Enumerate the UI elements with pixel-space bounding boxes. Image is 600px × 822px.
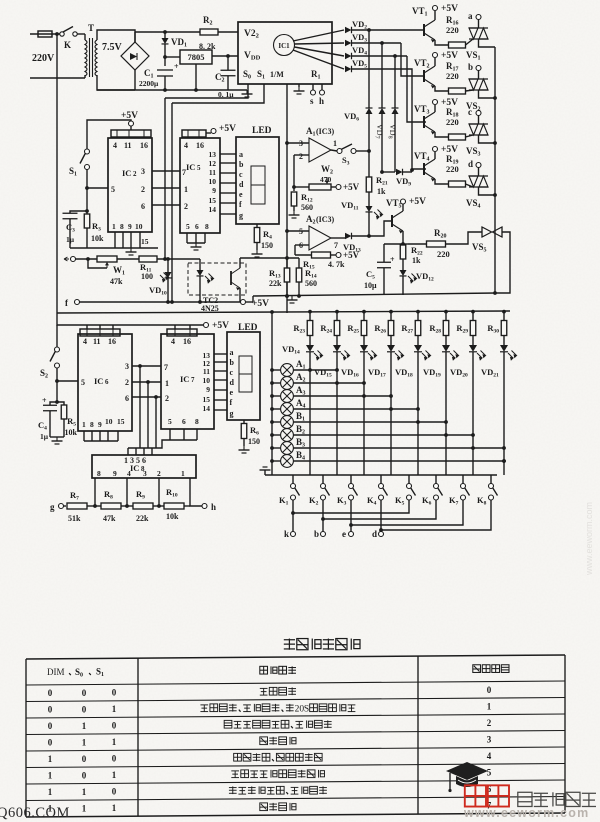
svg-text:220: 220 [446, 117, 459, 127]
node row A4 junction [416, 407, 420, 411]
wire IC2 pin3 to IC5 pin7 [152, 170, 180, 172]
pin header bar IC6 [80, 329, 120, 336]
terminal a [476, 15, 481, 20]
svg-text:9: 9 [113, 469, 117, 478]
terminal b [476, 66, 481, 71]
svg-text:16: 16 [196, 141, 204, 150]
svg-text:14: 14 [203, 404, 211, 413]
svg-text:0: 0 [82, 770, 87, 780]
svg-text:a: a [230, 348, 234, 357]
svg-text:4: 4 [487, 751, 492, 761]
wire TC2 collector up to R13 line [239, 258, 241, 268]
node row B2 junction [471, 433, 475, 437]
svg-text:+: + [390, 255, 395, 264]
LED VD14 [309, 336, 311, 346]
node row A1 junction [335, 368, 339, 372]
svg-text:Q606.COM: Q606.COM [0, 805, 70, 821]
ground on bottom bus [291, 296, 293, 300]
voltage regulator 7805 [180, 50, 212, 64]
svg-text:1: 1 [82, 803, 87, 813]
wire VD3 run [352, 42, 402, 44]
IC U IC2 counter [108, 138, 152, 232]
svg-text:e: e [239, 190, 243, 199]
svg-text:d: d [239, 180, 244, 189]
transistor VT5 [391, 215, 393, 227]
svg-text:www.eeworm.com: www.eeworm.com [584, 502, 594, 576]
capacitor C1 2200u [157, 69, 173, 71]
svg-text:0: 0 [487, 685, 492, 695]
switch K6 [435, 475, 437, 484]
table header 显示序号 [473, 665, 509, 673]
svg-text:f: f [230, 398, 233, 407]
seven segment digit 1 [251, 166, 265, 204]
svg-text:0: 0 [82, 704, 87, 714]
resistor R13 22k [286, 258, 288, 268]
svg-text:+5V: +5V [441, 51, 458, 61]
wires IC6 bottom pins [83, 431, 85, 441]
capacitor C2 0.1u [226, 54, 230, 58]
wire S2 to IC6 pin5 [56, 368, 58, 381]
ground line under IC2 [70, 247, 158, 249]
wire IC1 output line d [293, 50, 344, 69]
svg-text:10: 10 [203, 376, 211, 385]
resistor R2 8.2k [200, 29, 218, 35]
wire A2 output to VD13 [331, 237, 345, 239]
wire right cathode bus [494, 47, 496, 293]
wire IC5 header to +5V [206, 132, 211, 134]
op-amp A2 (IC3) [309, 226, 331, 250]
ground below C2 [246, 90, 248, 94]
resistor R24 [335, 310, 339, 314]
wire lamp column 4 [390, 352, 392, 475]
wire upper-section bottom bus [253, 293, 496, 296]
wire 220V live input [30, 33, 60, 35]
wire +5V distribution bus [57, 311, 510, 313]
wire S1 pin down-left [172, 84, 264, 103]
wire lamp row A3 [272, 395, 281, 397]
svg-text:4. 7k: 4. 7k [328, 260, 345, 269]
svg-text:11: 11 [209, 168, 216, 177]
wire gate to VS1 [466, 39, 474, 45]
svg-text:10k: 10k [166, 512, 179, 521]
svg-text:5: 5 [487, 767, 492, 777]
svg-text:11: 11 [203, 367, 210, 376]
wire 7805 ground [195, 64, 197, 90]
wire VD2 to VT1 base [352, 29, 425, 31]
svg-text:k: k [284, 529, 289, 539]
node VD1 top [163, 30, 167, 34]
wire R15 to +5V terminal [331, 254, 337, 256]
svg-text:15: 15 [141, 237, 149, 246]
svg-text:5: 5 [168, 417, 172, 426]
potentiometer W2 470 [292, 185, 296, 189]
svg-text:IC1: IC1 [278, 42, 290, 50]
LED VD16 [363, 336, 365, 346]
svg-text:1/M: 1/M [270, 70, 284, 79]
svg-text:2: 2 [184, 202, 188, 211]
terminal +5V lower [204, 323, 209, 328]
lamp B1 [281, 416, 294, 429]
svg-text:IC: IC [122, 168, 131, 178]
svg-text:16: 16 [183, 337, 191, 346]
resistor R4 150 [256, 224, 258, 228]
wire lamp row B2 [272, 434, 281, 436]
wire gate to VS2 [466, 90, 474, 91]
svg-text:560: 560 [305, 279, 317, 288]
wires IC2 bottom pins to ground line [114, 232, 116, 248]
svg-text:1: 1 [48, 787, 53, 797]
svg-text:1: 1 [82, 737, 87, 747]
svg-text:g: g [50, 502, 55, 512]
node bus-bottom [493, 291, 497, 295]
svg-text:g: g [230, 409, 234, 418]
svg-text:2200μ: 2200μ [139, 79, 159, 88]
LED VD11 [366, 206, 373, 212]
wire IC6 pin2 to IC7 pin1 [132, 381, 161, 383]
wire IC6 pin3 to IC7 pin7 [132, 365, 161, 367]
+5V terminal VT3 [434, 105, 436, 112]
switch K3 [350, 475, 352, 484]
wire VT2 emitter to R17 [435, 86, 448, 91]
wire IC2 pin2 to IC5 pin1 [152, 187, 180, 189]
LED VD19 [445, 336, 447, 346]
wire VD4 run [352, 55, 408, 57]
svg-text:22k: 22k [136, 514, 149, 523]
resistor R7 51k [64, 505, 67, 507]
wire lamp row B4 [272, 460, 281, 462]
svg-text:1: 1 [165, 379, 169, 388]
lamp A2 [281, 377, 294, 390]
lamp B4 [281, 455, 294, 468]
resistor R8 47k [87, 505, 101, 507]
svg-text:b: b [314, 529, 319, 539]
svg-text:8: 8 [195, 417, 199, 426]
TC2 phototransistor [230, 271, 232, 285]
svg-text:IC: IC [94, 376, 103, 386]
svg-text:K: K [64, 40, 71, 50]
LED VD12 [402, 259, 404, 270]
svg-text:S: S [304, 704, 309, 714]
svg-text:4: 4 [83, 337, 87, 346]
svg-text:1: 1 [184, 185, 188, 194]
wire TC2 emitter to +5V [239, 288, 241, 302]
ground rail of supply [97, 89, 247, 91]
svg-text:220: 220 [437, 249, 450, 259]
resistor R15 4.7k [295, 254, 312, 256]
triac VS5 horizontal [481, 227, 483, 237]
pin header bar IC5 [182, 130, 206, 137]
svg-text:2: 2 [487, 718, 492, 728]
ground IC1 [298, 84, 300, 87]
diode VD8 [394, 56, 396, 108]
pin header bar IC7 [167, 329, 197, 336]
wires IC5 bottom pins [186, 233, 188, 243]
wire gate to VS4 [466, 184, 474, 187]
switch K8 [490, 475, 492, 484]
wire VD3 to VT2 base [401, 43, 424, 76]
node DIM-A1 [285, 141, 289, 145]
svg-text:b: b [230, 358, 235, 367]
wire to IC2 pin 5 [87, 187, 108, 189]
svg-text:3: 3 [487, 734, 492, 744]
IC U IC5 decoder [180, 138, 220, 233]
triac VS2 [469, 78, 488, 80]
wire gate to VS3 [466, 135, 474, 137]
wire A2 pin5 input [287, 230, 309, 232]
resistor R16 220 [449, 42, 466, 48]
wire VD4 to VT3 base [407, 56, 426, 122]
node row A2 junction [362, 381, 366, 385]
svg-text:8: 8 [97, 469, 101, 478]
switch S1 [85, 149, 90, 154]
svg-text:6: 6 [141, 202, 145, 211]
wires IC7 bottom pins [169, 429, 171, 440]
nets to IC8 pins [138, 364, 142, 368]
table header 闪光规律 [260, 666, 296, 674]
wire VT4 emitter to R19 [435, 179, 448, 184]
svg-text:0: 0 [48, 688, 53, 698]
node row B3 junction [502, 446, 506, 450]
node row A3 junction [389, 394, 393, 398]
wire VD8 column down to VD9 [394, 114, 396, 172]
svg-text:12: 12 [209, 159, 217, 168]
svg-text:4: 4 [171, 337, 175, 346]
wire VS2 cathode to right bus [479, 90, 496, 98]
node C1 top [163, 88, 167, 92]
svg-text:2: 2 [157, 469, 161, 478]
wire VD6 cathode down to S3 node [368, 114, 370, 177]
svg-text:15: 15 [203, 395, 211, 404]
svg-text:0: 0 [112, 688, 117, 698]
svg-text:T: T [88, 23, 94, 33]
IC1 internal oscillator circle [274, 35, 295, 56]
resistor R19 220 [449, 181, 466, 187]
LED VD21 [503, 336, 505, 346]
svg-text:1: 1 [82, 721, 87, 731]
svg-text:16: 16 [108, 337, 116, 346]
switch K7 [462, 475, 464, 484]
wire A1 output to S3 [331, 150, 337, 151]
svg-text:15: 15 [117, 417, 125, 426]
svg-text:LED: LED [252, 126, 272, 136]
svg-text:100: 100 [141, 272, 153, 281]
wire S0 vertical to e-line [164, 98, 166, 259]
diode VD3 [345, 40, 352, 47]
svg-text:h: h [211, 502, 216, 512]
wire A2 pin6 input [295, 244, 309, 246]
terminal b [321, 532, 326, 537]
wire lamp column 3 [363, 352, 365, 475]
svg-text:1k: 1k [412, 256, 421, 265]
resistor R5 10k [57, 402, 64, 405]
wire VS3 cathode to right bus [479, 135, 496, 143]
svg-text:10k: 10k [65, 428, 78, 437]
resistor R25 [362, 310, 366, 314]
resistor R9 22k [121, 505, 133, 507]
capacitor C4 1u [50, 402, 57, 405]
wire W2 to +5V terminal [331, 186, 336, 188]
triac VS1 [469, 27, 488, 29]
svg-text:+5V: +5V [252, 299, 269, 309]
svg-text:16: 16 [140, 141, 148, 150]
wire R21 to VD11 [368, 192, 370, 206]
svg-text:1μ: 1μ [66, 235, 75, 244]
svg-text:h: h [319, 96, 324, 106]
svg-text:6: 6 [182, 417, 186, 426]
watermark 电子下载站 [518, 792, 596, 806]
svg-text:IC: IC [180, 374, 189, 384]
lamp A4 [281, 403, 294, 416]
terminal e [349, 532, 354, 537]
svg-text:1: 1 [112, 770, 117, 780]
svg-text:(IC3): (IC3) [316, 215, 335, 224]
wire S1 to pin5 junction [86, 169, 88, 188]
resistor R6 150 [243, 420, 245, 424]
+5V terminal VT5 [402, 204, 404, 211]
svg-text:10μ: 10μ [364, 281, 377, 290]
svg-text:560: 560 [301, 203, 313, 212]
lamp A3 [281, 390, 294, 403]
svg-text:51k: 51k [68, 514, 81, 523]
wires K1-K4 to output terminals [292, 500, 294, 532]
wire S1 node down [86, 188, 88, 214]
wire lamp row A4 [272, 408, 281, 410]
svg-text:2: 2 [165, 394, 169, 403]
pin header bar IC2 [111, 130, 151, 137]
svg-text:7805: 7805 [188, 52, 205, 62]
svg-text:a: a [239, 150, 243, 159]
wire VS4 cathode to right bus [479, 187, 496, 195]
terminal k [291, 532, 296, 537]
+5V terminal VT4 [434, 152, 436, 159]
wire transformer secondary bottom [97, 75, 135, 90]
svg-text:7: 7 [164, 363, 168, 372]
svg-text:8: 8 [90, 420, 94, 429]
svg-text:0: 0 [112, 754, 117, 764]
node W1 left [86, 257, 90, 261]
svg-text:470: 470 [320, 175, 332, 184]
IC U IC1 pattern generator box [238, 22, 332, 84]
svg-text:11: 11 [93, 337, 101, 346]
svg-text:a: a [468, 11, 473, 21]
wire S1 to +5V [87, 120, 131, 150]
wire DIM pin down (to comparators) [286, 84, 288, 313]
wire lamp row B3 [272, 447, 281, 449]
wire f-line [80, 301, 241, 303]
svg-text:15: 15 [209, 196, 217, 205]
svg-text:220: 220 [446, 164, 459, 174]
svg-text:9: 9 [128, 222, 132, 231]
resistor R12 560 [291, 192, 297, 206]
triac VS3 [469, 123, 488, 125]
wire S3 to VD6 node [356, 150, 369, 152]
terminal d [476, 163, 481, 168]
svg-text:1: 1 [112, 222, 116, 231]
ground IC5 [195, 243, 197, 247]
svg-text:+5V: +5V [212, 321, 229, 331]
wire comparator feed line y258 [240, 257, 299, 259]
svg-text:5: 5 [197, 164, 201, 172]
wire VD5 to VT4 base [352, 69, 427, 169]
svg-text:47k: 47k [103, 514, 116, 523]
resistor R14 560 [298, 258, 300, 268]
svg-text:4: 4 [184, 141, 188, 150]
wire VD13 to VT5 base [352, 221, 393, 236]
switch K [60, 32, 64, 36]
wire 220V neutral [30, 77, 85, 79]
svg-text:9: 9 [98, 420, 102, 429]
switch K5 [408, 475, 410, 484]
svg-text:220V: 220V [32, 53, 55, 64]
diode VD5 [345, 66, 352, 73]
fuse [38, 31, 52, 37]
wire VD7 column down [381, 114, 383, 172]
potentiometer W1 47k [97, 256, 117, 262]
wire lamp matrix left feed [271, 312, 273, 475]
svg-text:d: d [230, 378, 235, 387]
svg-text:1: 1 [82, 787, 87, 797]
+5V terminal VT2 [434, 58, 436, 66]
svg-text:c: c [230, 368, 234, 377]
wire IC7 bottom to IC8 [156, 440, 170, 448]
resistor R3 10k [84, 214, 90, 228]
svg-text:e: e [230, 388, 234, 397]
terminal e with arrow [64, 257, 69, 261]
wire lamp column 1 [309, 352, 311, 475]
svg-text:4: 4 [113, 141, 117, 150]
ground below R12 [293, 206, 295, 211]
node left bus [55, 32, 59, 36]
svg-text:47k: 47k [110, 277, 123, 286]
svg-text:10k: 10k [91, 234, 104, 243]
svg-text:g: g [239, 211, 243, 220]
transistor VT1 [423, 24, 425, 36]
triac VS4 [469, 175, 488, 177]
wire IC1 output line c [295, 47, 345, 56]
wire VT3 emitter to R18 [435, 132, 448, 137]
wire lamp column 7 [472, 352, 474, 475]
resistor R10 10k [153, 505, 164, 507]
bridge rectifier [121, 42, 149, 70]
resistor R20 220 [403, 243, 408, 245]
wire S0 pin down-left [165, 84, 248, 98]
wires IC8 bottom pins to resistor chain [94, 478, 96, 506]
ground lamp common [264, 470, 266, 475]
svg-text:+: + [42, 396, 47, 405]
wire lamp common bottom line [265, 474, 497, 476]
svg-text:s: s [310, 96, 314, 106]
wire VD11 down to VD13 line [368, 212, 370, 236]
wire VD9 to VT4 base node [403, 171, 413, 173]
wires IC7 to LED display 2 [214, 353, 227, 355]
resistor R18 220 [449, 134, 466, 140]
svg-text:7.5V: 7.5V [102, 42, 123, 53]
svg-text:0: 0 [82, 754, 87, 764]
node VD8 column top [393, 54, 397, 58]
wire lower +5V branch [57, 313, 203, 325]
svg-text:8: 8 [205, 222, 209, 231]
svg-text:IC: IC [130, 463, 139, 473]
terminal d [379, 532, 384, 537]
svg-text:0: 0 [112, 787, 117, 797]
svg-text:13: 13 [209, 150, 217, 159]
junction C3/R3 [85, 209, 89, 213]
resistor R21 1k [366, 177, 372, 192]
wire transformer secondary top [97, 30, 135, 42]
svg-text:1μ: 1μ [40, 432, 49, 441]
svg-text:www.eeworm.com: www.eeworm.com [463, 806, 589, 820]
svg-text:b: b [239, 160, 244, 169]
